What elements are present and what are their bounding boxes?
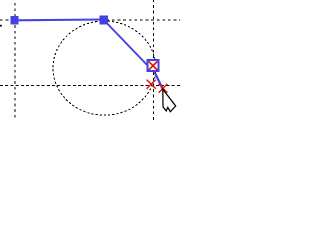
blue line segment 1 (horizontal between handles) xyxy=(15,18,104,21)
blue line segment 3 (steep short segment to pointer) xyxy=(155,73,162,88)
left edge tick mark xyxy=(0,25,2,27)
horizontal snap guide D through snap cross xyxy=(0,84,180,86)
vertical snap guide C through snap square xyxy=(152,0,154,120)
red snap cross 2 at guide crossing xyxy=(147,80,156,89)
blue line segment 2 (diagonal to vertex) xyxy=(104,20,156,74)
handle square 2 (filled) xyxy=(99,16,108,25)
mouse pointer arrow xyxy=(163,89,176,112)
snap indicator square 3 (open, white fill) xyxy=(148,60,159,71)
vertical snap guide A through first handle xyxy=(14,0,16,120)
handle square 1 (filled) xyxy=(11,16,19,24)
horizontal snap guide B through handles xyxy=(0,19,180,21)
red cross inside square 3 xyxy=(149,61,158,70)
red snap cross 3 at pointer tip xyxy=(159,84,168,93)
dashed ellipse outline (drag preview of circle) xyxy=(53,21,156,115)
